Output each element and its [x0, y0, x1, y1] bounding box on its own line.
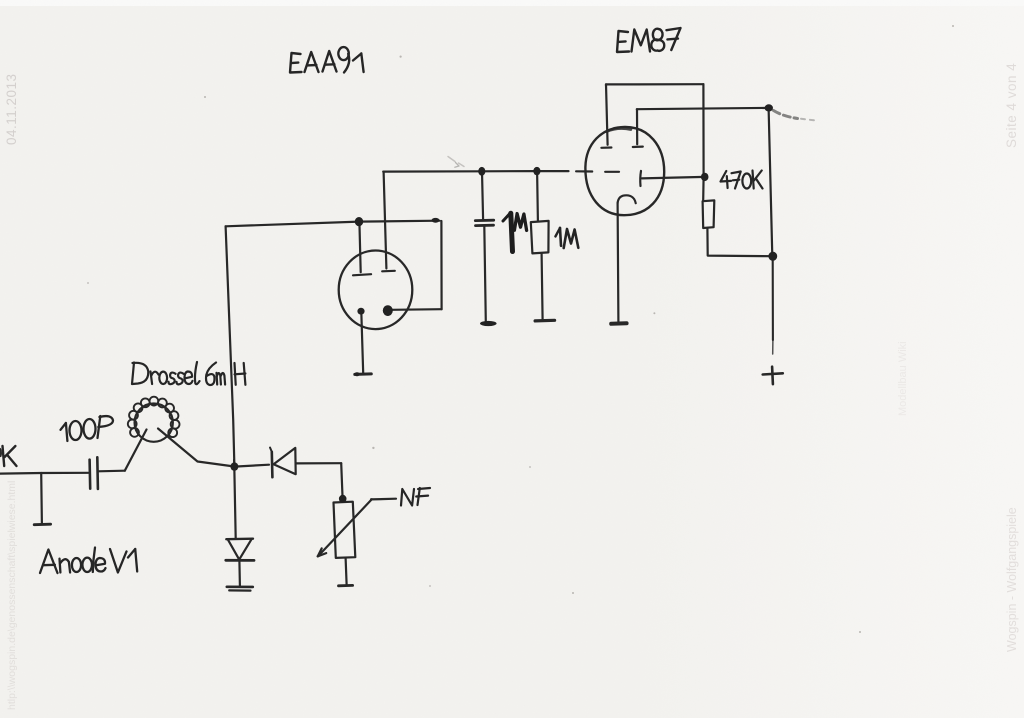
svg-text:04.11.2013: 04.11.2013	[4, 73, 19, 145]
svg-text:htlp:\\wogspin.de\genossenscha: htlp:\\wogspin.de\genossenschaft\spielwi…	[6, 481, 18, 710]
svg-text:Wogspin - Wolfgangspiele: Wogspin - Wolfgangspiele	[1005, 507, 1019, 652]
svg-text:Seite 4 von 4: Seite 4 von 4	[1004, 63, 1019, 148]
svg-text:Modellbau Wiki: Modellbau Wiki	[897, 341, 909, 416]
